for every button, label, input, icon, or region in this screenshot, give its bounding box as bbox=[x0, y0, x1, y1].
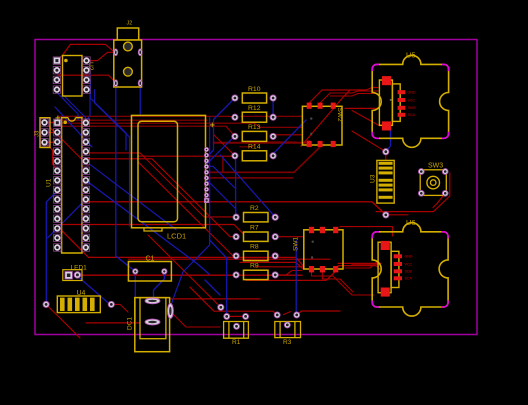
svg-text:U1: U1 bbox=[46, 178, 53, 187]
wire bbox=[352, 131, 386, 152]
wire bbox=[77, 274, 302, 276]
wire bbox=[295, 240, 297, 315]
wire bbox=[207, 166, 235, 188]
wire bbox=[241, 115, 302, 117]
resistor R2 bbox=[233, 205, 278, 222]
wire bbox=[386, 128, 391, 151]
wire bbox=[340, 227, 392, 236]
U2 pin 5 bbox=[83, 86, 90, 93]
U1 pin 5 bbox=[54, 157, 61, 164]
wire bbox=[58, 75, 116, 82]
LCD1 pin 4 bbox=[204, 165, 208, 169]
wire bbox=[220, 155, 275, 217]
wire bbox=[64, 96, 87, 123]
wire bbox=[272, 98, 274, 117]
wire bbox=[345, 107, 379, 109]
svg-text:R2: R2 bbox=[250, 205, 259, 212]
wire bbox=[77, 276, 111, 304]
wire bbox=[49, 126, 88, 166]
via bbox=[108, 301, 114, 307]
wire bbox=[275, 236, 304, 238]
wire bbox=[330, 94, 378, 97]
LCD1 pin 8 bbox=[204, 187, 208, 191]
wire bbox=[84, 179, 210, 274]
U2 pin 1 bbox=[53, 57, 60, 64]
wire bbox=[86, 322, 140, 324]
U2 pin 6 bbox=[83, 76, 90, 83]
wire bbox=[59, 225, 244, 234]
U2 pin 2 bbox=[53, 67, 60, 74]
wire bbox=[59, 228, 304, 267]
wire bbox=[46, 304, 80, 338]
resistor R13 bbox=[232, 124, 276, 141]
U1 pin 14 bbox=[54, 244, 61, 251]
LCD1 pin 1 bbox=[204, 147, 208, 151]
U1 pin 4 bbox=[54, 148, 61, 155]
U1 pin 1 bbox=[54, 119, 61, 126]
U1 pin 27 bbox=[82, 129, 89, 136]
svg-text:SDB: SDB bbox=[405, 270, 413, 274]
svg-text:SW2: SW2 bbox=[336, 108, 343, 122]
switch SW1 bbox=[293, 227, 344, 273]
resistor R3 bbox=[274, 312, 300, 346]
wire bbox=[95, 90, 130, 226]
svg-text:R9: R9 bbox=[250, 263, 259, 270]
U1 pin 15 bbox=[82, 244, 89, 251]
wire bbox=[58, 123, 302, 127]
wire bbox=[273, 135, 302, 137]
wire bbox=[170, 228, 209, 308]
U2 pin 7 bbox=[83, 67, 90, 74]
U1 pin 26 bbox=[82, 138, 89, 145]
wire bbox=[386, 214, 408, 216]
switch SW2 bbox=[302, 103, 343, 147]
LED LED1 bbox=[63, 264, 87, 280]
U1 pin 22 bbox=[82, 177, 89, 184]
J1 pin 2 bbox=[41, 129, 48, 136]
resistor R10 bbox=[232, 86, 276, 103]
svg-text:U3: U3 bbox=[370, 174, 377, 183]
svg-text:J3: J3 bbox=[35, 130, 41, 137]
LCD1 pin 7 bbox=[204, 182, 208, 186]
origin cross LCD1 bbox=[210, 123, 215, 128]
button SW3 bbox=[418, 163, 448, 197]
wire bbox=[433, 193, 445, 207]
U1 pin 20 bbox=[82, 196, 89, 203]
wire bbox=[320, 91, 378, 103]
U1 pin 16 bbox=[82, 234, 89, 241]
wire bbox=[138, 155, 236, 157]
U1 pin 3 bbox=[54, 138, 61, 145]
LCD1 pin 5 bbox=[204, 170, 208, 174]
wire bbox=[255, 266, 303, 268]
wire bbox=[208, 98, 235, 157]
wire bbox=[208, 181, 236, 217]
wire bbox=[385, 152, 387, 160]
svg-text:LCD1: LCD1 bbox=[167, 232, 186, 241]
via bbox=[218, 304, 224, 310]
wire bbox=[275, 271, 302, 275]
U1 pin 24 bbox=[82, 157, 89, 164]
wire bbox=[86, 159, 236, 237]
IC U2 bbox=[63, 56, 95, 97]
wire bbox=[87, 52, 116, 60]
wire bbox=[45, 131, 58, 133]
svg-text:R1: R1 bbox=[232, 339, 241, 346]
wire bbox=[207, 177, 294, 179]
wire bbox=[376, 173, 450, 212]
svg-text:R3: R3 bbox=[283, 339, 292, 346]
header J1 bbox=[35, 118, 51, 148]
wire bbox=[190, 287, 277, 315]
U1 pin 17 bbox=[82, 225, 89, 232]
wire bbox=[55, 107, 92, 147]
wire bbox=[222, 156, 224, 172]
svg-text:R10: R10 bbox=[248, 86, 261, 93]
U1 pin 18 bbox=[82, 215, 89, 222]
svg-text:DC1: DC1 bbox=[127, 317, 134, 330]
wire bbox=[90, 165, 176, 230]
svg-text:VCC: VCC bbox=[408, 98, 416, 102]
svg-text:GND: GND bbox=[408, 91, 416, 95]
U2 pin 4 bbox=[53, 86, 60, 93]
LCD1 pin 3 bbox=[204, 159, 208, 163]
wire bbox=[214, 141, 310, 143]
IC U1 bbox=[46, 118, 83, 253]
wire bbox=[374, 203, 386, 214]
svg-text:R12: R12 bbox=[248, 105, 261, 112]
connector U3 bbox=[370, 160, 395, 203]
wire bbox=[246, 272, 336, 281]
wire bbox=[309, 88, 378, 104]
wire bbox=[206, 147, 320, 172]
LCD1 pin 9 bbox=[204, 193, 208, 197]
U1 pin 21 bbox=[82, 186, 89, 193]
U1 pin 25 bbox=[82, 148, 89, 155]
svg-text:GND: GND bbox=[405, 255, 413, 259]
wire bbox=[46, 191, 57, 305]
capacitor C1 bbox=[128, 256, 171, 282]
svg-text:R8: R8 bbox=[250, 244, 259, 251]
U2 pin 3 bbox=[53, 76, 60, 83]
wire bbox=[227, 315, 246, 317]
svg-text:VCC: VCC bbox=[405, 262, 413, 266]
wire bbox=[134, 271, 136, 320]
wire bbox=[154, 271, 165, 298]
wire bbox=[205, 280, 220, 295]
wire bbox=[58, 115, 235, 118]
svg-text:J2: J2 bbox=[127, 21, 133, 27]
board outline bbox=[35, 40, 477, 335]
wire bbox=[86, 153, 236, 217]
module U6 bbox=[372, 218, 448, 316]
LCD1 pin 10 bbox=[204, 198, 208, 202]
wire bbox=[138, 162, 236, 256]
wire bbox=[83, 202, 386, 215]
wire bbox=[297, 311, 340, 315]
U1 pin 13 bbox=[54, 234, 61, 241]
U1 pin 9 bbox=[54, 196, 61, 203]
svg-text:R13: R13 bbox=[248, 124, 261, 131]
module U5 bbox=[372, 51, 448, 148]
resistor R7 bbox=[233, 225, 278, 242]
svg-text:SCA: SCA bbox=[405, 277, 413, 281]
U1 pin 28 bbox=[82, 119, 89, 126]
resistor R12 bbox=[232, 105, 276, 122]
wire bbox=[139, 83, 141, 114]
wire bbox=[207, 137, 234, 165]
LCD1 pin 6 bbox=[204, 176, 208, 180]
U1 pin 19 bbox=[82, 205, 89, 212]
wire bbox=[352, 263, 378, 265]
wire bbox=[338, 266, 381, 270]
wire bbox=[322, 269, 353, 292]
J1 pin 3 bbox=[41, 139, 48, 146]
svg-text:SCA: SCA bbox=[408, 113, 416, 117]
wire bbox=[128, 258, 330, 260]
wire bbox=[58, 119, 207, 121]
wire bbox=[352, 111, 380, 127]
wire bbox=[170, 311, 220, 327]
wire bbox=[87, 70, 90, 120]
U1 pin 7 bbox=[54, 177, 61, 184]
wire bbox=[57, 44, 114, 60]
resistor R8 bbox=[233, 244, 278, 261]
DC jack DC1 bbox=[127, 298, 174, 352]
LCD LCD1 bbox=[132, 115, 206, 240]
resistor R1 bbox=[224, 313, 249, 346]
svg-text:SKIB: SKIB bbox=[408, 106, 417, 110]
resistor R14 bbox=[232, 144, 276, 161]
wire bbox=[90, 80, 126, 150]
U1 pin 2 bbox=[54, 129, 61, 136]
via bbox=[383, 149, 389, 155]
wire bbox=[116, 83, 136, 271]
resistor network U4 bbox=[57, 290, 100, 313]
via bbox=[383, 212, 389, 218]
wire bbox=[58, 126, 235, 136]
wire bbox=[312, 269, 375, 295]
J1 pin 1 bbox=[41, 119, 48, 126]
wire bbox=[148, 235, 221, 307]
U1 pin 10 bbox=[54, 205, 61, 212]
wire bbox=[210, 117, 227, 316]
wire bbox=[338, 262, 381, 264]
U1 pin 11 bbox=[54, 215, 61, 222]
wire bbox=[235, 157, 237, 218]
wire bbox=[301, 90, 350, 146]
wire bbox=[111, 304, 128, 312]
U1 pin 6 bbox=[54, 167, 61, 174]
svg-text:SW3: SW3 bbox=[428, 163, 443, 170]
wire bbox=[57, 90, 78, 120]
wire bbox=[345, 261, 378, 268]
U2 pin 8 bbox=[83, 57, 90, 64]
wire bbox=[240, 262, 303, 268]
U1 pin 23 bbox=[82, 167, 89, 174]
U1 pin 12 bbox=[54, 225, 61, 232]
wire bbox=[240, 142, 296, 147]
wire bbox=[48, 199, 86, 238]
resistor R9 bbox=[233, 263, 278, 280]
svg-text:R14: R14 bbox=[248, 144, 261, 151]
wire bbox=[283, 312, 290, 315]
U1 pin 8 bbox=[54, 186, 61, 193]
via bbox=[43, 301, 49, 307]
wire bbox=[170, 298, 260, 300]
wire bbox=[45, 141, 58, 143]
origin cross U1 bbox=[56, 116, 61, 121]
svg-text:SW1: SW1 bbox=[293, 237, 300, 251]
connector J2 bbox=[114, 21, 142, 88]
wire bbox=[214, 135, 235, 156]
LCD1 pin 2 bbox=[204, 153, 208, 157]
svg-text:R7: R7 bbox=[250, 225, 259, 232]
wire bbox=[45, 122, 58, 124]
wire bbox=[45, 142, 58, 170]
wire bbox=[273, 120, 306, 156]
